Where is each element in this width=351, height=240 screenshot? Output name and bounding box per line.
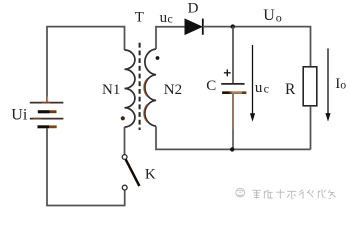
- wire N1 bottom to switch: [124, 127, 126, 155]
- node after diode: [231, 24, 235, 28]
- wire battery bottom to switch: [47, 128, 125, 205]
- wire top-left rail from battery to transformer primary: [47, 27, 125, 103]
- node capacitor/rail junction: [230, 147, 234, 151]
- orange tinge above top plate: [47, 97, 49, 103]
- svg-text:o: o: [276, 10, 282, 24]
- svg-text:Ui: Ui: [11, 107, 28, 124]
- N1 polarity dot: [121, 116, 125, 120]
- plate short thick bottom: [38, 125, 50, 128]
- svg-text:R: R: [285, 81, 296, 98]
- wire diode to top-right corner: [203, 27, 311, 67]
- svg-text:o: o: [340, 80, 346, 92]
- svg-text:K: K: [145, 166, 156, 182]
- svg-text:D: D: [188, 1, 199, 17]
- wire N2 top to diode: [156, 27, 185, 49]
- svg-text:C: C: [206, 78, 216, 94]
- resistor R: [303, 67, 317, 106]
- diode D: [185, 19, 202, 35]
- bottom rail secondary side: [156, 126, 311, 149]
- plate long middle: [30, 118, 64, 120]
- wire resistor bottom to rail: [310, 106, 312, 150]
- svg-text:u: u: [160, 10, 168, 26]
- plus sign: [224, 69, 231, 76]
- capacitor C: [221, 83, 244, 85]
- watermark logo: [236, 188, 245, 197]
- reddish tint on N2 humps (jpeg colour): [144, 78, 148, 96]
- transformer core (dashed): [139, 43, 141, 130]
- svg-text:c: c: [264, 82, 269, 96]
- battery Ui: [30, 97, 64, 129]
- svg-text:N2: N2: [164, 82, 182, 98]
- svg-text:T: T: [135, 9, 144, 25]
- svg-text:N1: N1: [102, 82, 120, 98]
- svg-text:U: U: [263, 7, 275, 24]
- switch K: [122, 155, 127, 160]
- transformer T primary winding N1: [125, 50, 135, 127]
- plate short thick: [38, 110, 50, 113]
- svg-text:u: u: [255, 80, 263, 96]
- transformer secondary winding N2: [145, 49, 156, 126]
- N2 polarity dot: [156, 56, 160, 60]
- svg-text:c: c: [167, 12, 172, 26]
- wire node to capacitor: [232, 27, 234, 84]
- arrow uc (voltage across C): [252, 45, 254, 115]
- arrow Io (load current): [327, 48, 329, 115]
- wire capacitor bottom to rail (brownish): [232, 94, 234, 129]
- watermark text 硬件十万个为什么 (approximated strokes): [252, 189, 335, 198]
- plate long top: [30, 102, 64, 104]
